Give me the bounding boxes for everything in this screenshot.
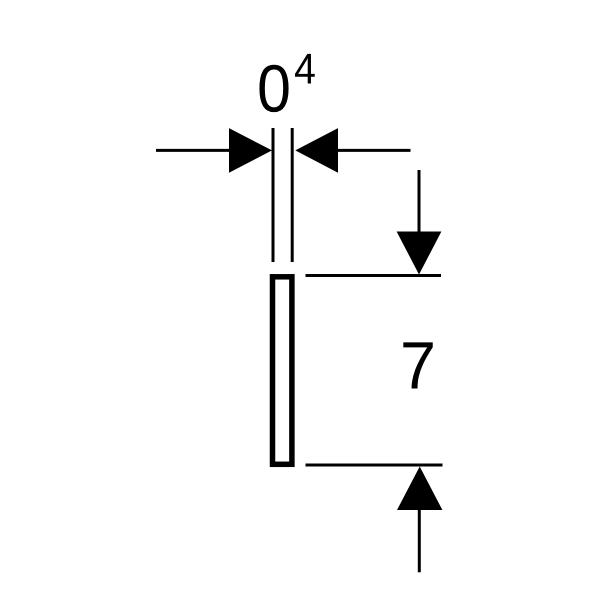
arrow: right-pointing arrowhead of 0.4 dimension — [229, 128, 272, 173]
arrow: up-pointing arrowhead of 7 dimension — [397, 467, 442, 511]
arrow: down-pointing arrowhead of 7 dimension — [397, 232, 442, 275]
extension line: bottom of 7 dimension — [306, 464, 443, 467]
dimension label 7 — [403, 342, 432, 388]
arrow: left-pointing arrowhead of 0.4 dimension — [295, 128, 338, 173]
wire: lower tail of vertical dimension line — [418, 510, 421, 572]
wire: left tail of horizontal dimension line — [156, 149, 231, 152]
dimension label superscript 4 — [295, 54, 315, 84]
extension line: left (continues left wall of profile) — [272, 128, 275, 262]
wire: upper tail of vertical dimension line — [418, 170, 421, 233]
profile rectangle (sealing strip cross-section) — [273, 277, 292, 465]
dimension label 0 (value 0.4, main digit) — [259, 65, 288, 112]
extension line: top of 7 dimension — [306, 274, 442, 277]
extension line: right (continues right wall of profile) — [291, 128, 294, 262]
wire: right tail of horizontal dimension line — [337, 149, 411, 152]
